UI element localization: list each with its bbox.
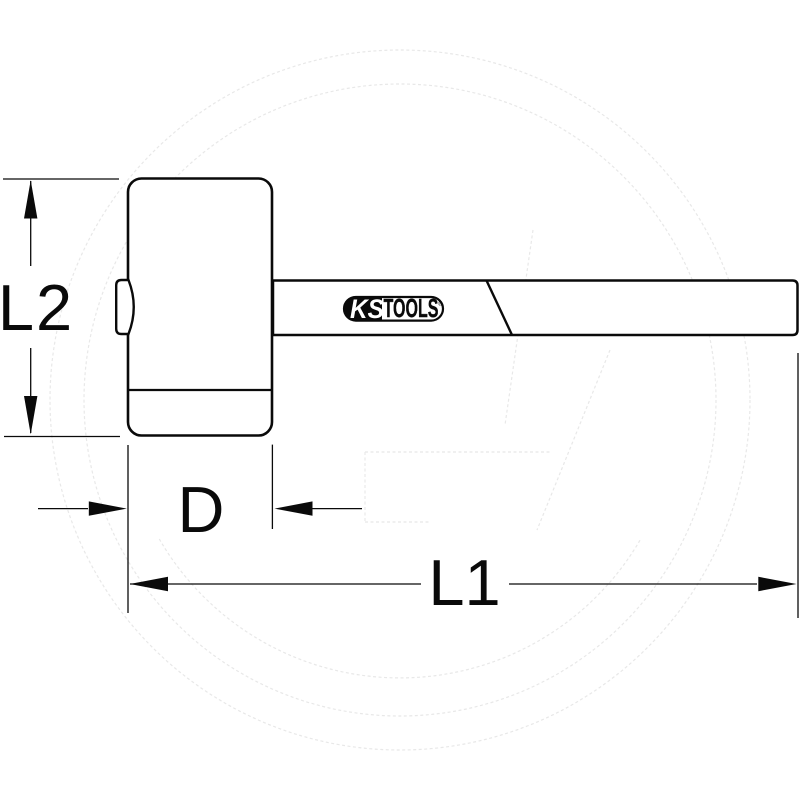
handle grip separation line <box>487 281 513 336</box>
D left arrowhead <box>89 501 127 515</box>
head parting line <box>128 389 272 391</box>
D right arrowhead <box>275 501 313 515</box>
svg-text:KS: KS <box>350 294 384 324</box>
watermark circle inner <box>84 84 716 716</box>
watermark circle outer <box>50 50 750 750</box>
dimension L1 line right segment <box>509 583 757 585</box>
KS TOOLS logo <box>344 294 443 324</box>
L2 arrow up <box>24 180 37 218</box>
L2 arrow down <box>24 396 37 434</box>
dimension L2 extension line top <box>3 178 119 180</box>
watermark monogram strokes <box>505 230 533 425</box>
D right arrow line <box>312 508 362 510</box>
dimension D extension line left <box>127 445 129 613</box>
logo black section <box>344 297 443 321</box>
svg-text:D: D <box>178 473 225 546</box>
dimension D extension line right <box>271 445 273 529</box>
logo pill <box>344 297 443 321</box>
dimension L2 extension line bottom <box>4 436 120 438</box>
dimension L1 line left segment <box>130 583 421 585</box>
svg-text:L1: L1 <box>428 546 500 619</box>
svg-text:L2: L2 <box>0 271 74 344</box>
watermark bottom arc <box>159 539 640 678</box>
hammer head <box>128 179 272 436</box>
mallet face insert <box>116 280 134 334</box>
handle <box>273 281 798 336</box>
dimension L2 line upper segment <box>30 181 32 266</box>
svg-text:®: ® <box>438 301 443 308</box>
dimension L2 line lower segment <box>30 348 32 433</box>
L1 left arrowhead <box>130 577 168 591</box>
L1 right arrowhead <box>758 577 796 591</box>
D left arrow line <box>38 508 88 510</box>
svg-text:TOOLS: TOOLS <box>384 295 439 323</box>
dimension L1 extension line right <box>797 353 799 618</box>
